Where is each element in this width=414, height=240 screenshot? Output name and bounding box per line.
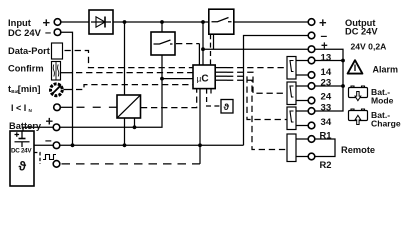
svg-text:13: 13 <box>321 53 332 64</box>
switch S2 contact <box>154 40 173 44</box>
wire remote bracket <box>315 139 335 157</box>
switch S1 contact <box>212 18 232 22</box>
converter DC/DC diagonal <box>118 96 140 118</box>
node junction DCDC pin1/bat- <box>123 143 127 147</box>
wire contact R1 <box>296 138 308 140</box>
svg-text:N: N <box>29 108 33 113</box>
wire uC row A dashed <box>65 51 194 68</box>
node junction DCDC pin2 <box>133 125 137 129</box>
wire I<IN to DCDC dashed <box>77 106 118 108</box>
node junction top C <box>201 20 205 24</box>
wire contact 33 <box>296 110 308 112</box>
diode D1 box <box>89 10 113 34</box>
terminal 23 <box>308 83 315 90</box>
diode D1 symbol <box>91 17 111 28</box>
terminal 33 <box>308 108 315 115</box>
wire DCDC bottom pin1 <box>124 118 126 145</box>
svg-text:34: 34 <box>321 117 332 128</box>
wire sense to uC <box>162 78 193 80</box>
relay K2 blade <box>290 86 294 97</box>
icon battery mode <box>349 86 368 101</box>
terminal output - <box>308 32 315 39</box>
wire dial stub <box>64 89 73 91</box>
converter DC/DC box <box>117 95 141 118</box>
terminal output + <box>308 19 315 26</box>
relay K1 blade <box>290 61 294 72</box>
wire S1 bottom pin <box>213 34 215 49</box>
terminal R2 <box>308 153 315 160</box>
terminal input + <box>54 19 61 26</box>
label Input DC 24V <box>8 17 42 38</box>
svg-text:ϑ: ϑ <box>19 159 27 174</box>
svg-text:R2: R2 <box>320 159 332 170</box>
connector Data-Port symbol <box>52 43 63 59</box>
svg-text:14: 14 <box>321 67 332 78</box>
svg-text:Mode: Mode <box>371 95 394 105</box>
relay K3 blade <box>290 111 294 122</box>
potentiometer dial <box>51 84 63 96</box>
op-amp uC top pin1 <box>198 44 200 65</box>
wire relay K2 control dashed <box>215 72 287 93</box>
terminal 34 <box>308 122 315 129</box>
svg-text:24: 24 <box>321 92 332 103</box>
node junction rail 23 <box>341 84 345 88</box>
svg-text:23: 23 <box>321 78 332 89</box>
wire contact 13 <box>296 60 308 62</box>
remote input box <box>287 134 296 162</box>
label Bat.-Charge <box>371 110 401 129</box>
battery BT1 box <box>10 131 34 186</box>
terminal R1 <box>308 136 315 143</box>
node junction aux <box>201 47 205 51</box>
wire input+ to diode <box>61 21 89 23</box>
node junction top B <box>160 20 164 24</box>
wire uC row D-left dashed <box>76 85 193 90</box>
svg-text:–: – <box>45 133 52 147</box>
wire contact R2 <box>296 156 308 158</box>
svg-text:24V 0,2A: 24V 0,2A <box>351 41 387 51</box>
wire battery pulse link dashed <box>34 153 40 164</box>
label I<IN <box>11 103 33 113</box>
svg-text:–: – <box>45 27 51 39</box>
svg-text:+: + <box>321 40 328 52</box>
wire relay K1 control dashed <box>215 67 287 69</box>
terminal battery - <box>53 142 60 149</box>
svg-text:DC 24V: DC 24V <box>8 27 42 38</box>
svg-text:ϑ: ϑ <box>224 102 230 113</box>
wire I<IN stub <box>60 106 72 108</box>
wire output- to trunk <box>244 36 309 146</box>
terminal battery + <box>53 124 60 131</box>
wire aux vertical node C <box>202 22 204 65</box>
wire uC bottom pin2 <box>199 89 201 164</box>
node junction trunk/bat- <box>71 143 75 147</box>
terminal I<IN <box>54 104 61 111</box>
node junction uC pin/bat- <box>198 143 202 147</box>
wire S2 top pin <box>161 22 163 32</box>
wire 13 to rail <box>315 60 343 62</box>
wire 23 to rail <box>315 85 343 87</box>
icon battery charge <box>349 109 368 125</box>
terminal 24 <box>308 97 315 104</box>
wire S1 to output+ <box>234 21 308 23</box>
wire uC bottom pin4 stub <box>210 89 212 94</box>
microcontroller U1 box <box>193 65 215 89</box>
terminal aux + <box>308 46 315 53</box>
relay K3 contact box <box>287 107 296 130</box>
svg-text:Alarm: Alarm <box>373 64 399 74</box>
relay K2 contact box <box>287 82 296 105</box>
wire DCDC top pin <box>124 22 126 95</box>
terminal battery temp <box>53 161 60 168</box>
wire contact 14 <box>296 74 308 76</box>
wire pulse row dashed <box>62 163 201 165</box>
wire battery- line <box>34 144 244 146</box>
wire contact 34 <box>296 125 308 127</box>
wire aux 24V line <box>203 48 308 50</box>
wire DCDC to uC dashed <box>141 89 197 108</box>
svg-text:Battery: Battery <box>9 121 42 131</box>
sensor Confirm symbol <box>52 62 61 81</box>
svg-text:µC: µC <box>197 73 209 84</box>
svg-text:I < I: I < I <box>11 103 26 113</box>
wire uC row B dashed <box>76 72 193 74</box>
wire input- to trunk <box>61 32 73 145</box>
wire Confirm stub <box>61 72 73 74</box>
pulse symbol <box>43 155 56 160</box>
svg-text:Remote: Remote <box>341 145 375 155</box>
node junction rail 13 <box>341 59 345 63</box>
svg-text:Confirm: Confirm <box>8 64 44 74</box>
wire diode to switch S1 <box>113 21 209 23</box>
wire contact 24 <box>296 100 308 102</box>
alarm warning triangle <box>348 60 363 73</box>
wire relay K3 control dashed <box>215 76 287 119</box>
node junction top A <box>123 20 127 24</box>
sensor theta box <box>221 100 233 114</box>
terminal input - <box>54 29 61 36</box>
wire DCDC bottom pin2 <box>134 118 136 127</box>
wire uC to theta dashed <box>207 89 221 106</box>
wire S1 control dashed <box>210 34 212 65</box>
wire battery+ line <box>23 55 162 131</box>
relay K1 contact box <box>287 57 296 80</box>
svg-text:+: + <box>46 114 54 129</box>
switch S1 box <box>209 9 234 34</box>
label Output DC 24V <box>345 18 378 36</box>
wire S2 control dashed <box>176 43 199 45</box>
label Bat.-Mode <box>371 87 394 106</box>
switch S2 box <box>151 32 175 55</box>
terminal 14 <box>308 72 315 79</box>
battery BT1 symbol <box>15 132 30 148</box>
svg-text:[min]: [min] <box>18 84 41 94</box>
svg-text:DC 24V: DC 24V <box>11 148 32 155</box>
terminal 13 <box>308 57 315 64</box>
svg-text:Data-Port: Data-Port <box>8 46 50 56</box>
wire remote control dashed <box>215 80 287 149</box>
svg-text:33: 33 <box>321 103 332 114</box>
svg-text:Charge: Charge <box>371 119 401 129</box>
label t[min] <box>8 84 41 94</box>
svg-text:DC 24V: DC 24V <box>345 26 378 36</box>
svg-text:R1: R1 <box>320 130 332 141</box>
wire contact 23 <box>296 85 308 87</box>
node junction sense <box>160 77 164 81</box>
wire aux rail <box>315 49 343 111</box>
